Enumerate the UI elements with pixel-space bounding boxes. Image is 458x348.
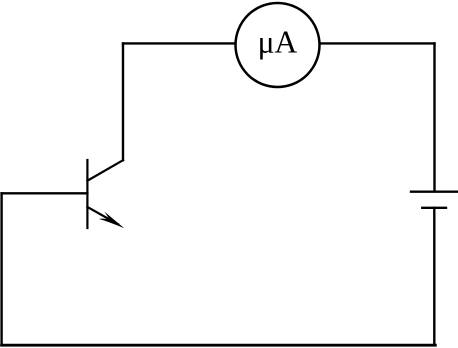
battery BT1 long plate (+) bbox=[411, 190, 458, 192]
ammeter M1 circle bbox=[236, 3, 320, 87]
transistor Q1 collector vertical wire bbox=[122, 43, 124, 160]
transistor Q1 emitter diagonal bbox=[87, 207, 118, 224]
wire bottom bbox=[2, 344, 436, 347]
svg-text:μA: μA bbox=[258, 24, 298, 59]
wire right upper (to battery + plate) bbox=[433, 43, 435, 190]
wire left bbox=[0, 193, 2, 345]
wire top-left (collector corner to meter) bbox=[123, 42, 236, 44]
wire base lead bbox=[2, 192, 88, 194]
transistor Q1 collector diagonal bbox=[87, 160, 123, 181]
wire top-right (meter to battery corner) bbox=[320, 42, 435, 44]
battery BT1 short plate (-) bbox=[422, 207, 446, 209]
transistor Q1 emitter arrowhead bbox=[99, 212, 125, 229]
wire right lower (battery - to bottom wire) bbox=[433, 208, 435, 345]
transistor Q1 base bar bbox=[86, 160, 88, 228]
